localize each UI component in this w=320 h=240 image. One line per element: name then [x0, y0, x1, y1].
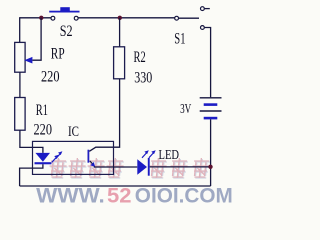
- svg-text:R1: R1: [36, 102, 48, 119]
- wire RP wiper: [32, 18, 41, 60]
- svg-text:52: 52: [107, 185, 132, 204]
- node C junction LED battery: [208, 165, 212, 169]
- wire RP to R1: [19, 72, 21, 97]
- battery plate short 1: [204, 103, 218, 106]
- svg-text:OIOI.COM: OIOI.COM: [135, 185, 233, 204]
- phototransistor base bar: [88, 150, 90, 163]
- wire battery negative down: [210, 119, 212, 186]
- LED triangle: [137, 159, 147, 174]
- watermark: 家电维修 资料网 (pink, approximated strokes): [48, 158, 211, 178]
- wire S1 to battery positive: [205, 28, 211, 98]
- wire R2 top: [119, 18, 121, 47]
- svg-text:S1: S1: [174, 31, 185, 48]
- LED light arrow 2: [149, 153, 153, 158]
- switch S1 lower contact: [201, 26, 205, 30]
- emitter arrowhead: [90, 162, 95, 167]
- wire top rail middle: [78, 17, 174, 19]
- svg-text:IC: IC: [68, 124, 79, 140]
- svg-text:330: 330: [134, 70, 152, 87]
- wire R1 to IC photodiode anode: [20, 130, 43, 153]
- wire R2 to phototransistor collector: [89, 79, 119, 152]
- svg-text:WWW.: WWW.: [36, 185, 105, 204]
- svg-text:220: 220: [41, 69, 60, 86]
- wire left rail to RP: [19, 17, 21, 43]
- switch S1 upper contact: [201, 7, 205, 11]
- IC optocoupler box: [33, 141, 114, 174]
- switch S2 button bar: [49, 11, 79, 13]
- switch S2 left terminal: [51, 16, 55, 20]
- switch S1 blade: [179, 17, 199, 19]
- switch S1 left terminal: [175, 16, 179, 20]
- wire emitter to LED: [94, 166, 138, 168]
- IC diode light arrow 2: [56, 154, 60, 159]
- resistor R2 body: [114, 47, 125, 79]
- svg-text:LED: LED: [159, 148, 180, 163]
- switch S2 button cap: [60, 7, 70, 11]
- potentiometer RP body: [15, 42, 25, 72]
- wire LED to battery rail: [150, 166, 211, 168]
- svg-text:S2: S2: [60, 23, 73, 40]
- IC emitter diode triangle: [35, 153, 50, 162]
- wire top rail left: [20, 17, 51, 19]
- IC diode light arrow 1: [52, 158, 56, 163]
- svg-text:RP: RP: [51, 46, 65, 63]
- battery BT1 plate long 1: [200, 97, 222, 99]
- IC emitter diode cathode bar: [35, 162, 52, 164]
- LED light arrow 1: [142, 153, 146, 158]
- resistor R1 body: [15, 98, 25, 131]
- wire S1 upper tick: [205, 8, 210, 10]
- battery plate long 2: [200, 110, 222, 112]
- wire IC diode cathode out: [20, 164, 43, 186]
- LED cathode bar: [148, 158, 150, 176]
- wire bottom rail: [20, 185, 211, 187]
- switch S2 right terminal: [74, 16, 78, 20]
- node B junction R2 top: [118, 16, 122, 20]
- svg-text:R2: R2: [134, 49, 146, 66]
- battery plate short 2: [204, 117, 218, 120]
- svg-text:3V: 3V: [180, 102, 191, 117]
- svg-text:220: 220: [34, 122, 53, 139]
- node A junction RP wiper: [39, 16, 43, 20]
- RP wiper arrow: [24, 57, 32, 64]
- phototransistor emitter: [90, 161, 93, 164]
